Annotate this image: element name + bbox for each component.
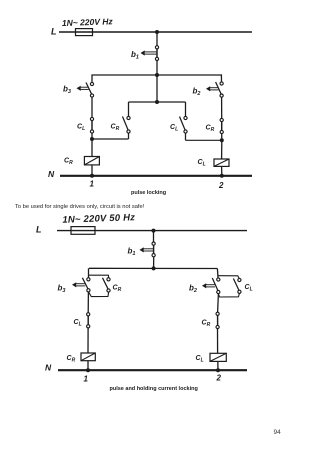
svg-text:To be used for single drives o: To be used for single drives only, circu… — [15, 204, 145, 210]
svg-text:2: 2 — [216, 373, 222, 382]
svg-text:2: 2 — [218, 181, 224, 190]
svg-text:1: 1 — [84, 375, 89, 384]
svg-text:1: 1 — [90, 179, 95, 188]
svg-text:pulse locking: pulse locking — [131, 190, 166, 196]
svg-text:L: L — [51, 27, 57, 37]
svg-text:N: N — [48, 169, 55, 179]
svg-text:L: L — [36, 225, 42, 235]
svg-text:pulse and holding current lock: pulse and holding current locking — [110, 386, 198, 392]
svg-text:1N~ 220V Hz: 1N~ 220V Hz — [62, 16, 114, 28]
svg-text:N: N — [45, 363, 52, 373]
svg-text:94: 94 — [274, 429, 282, 436]
